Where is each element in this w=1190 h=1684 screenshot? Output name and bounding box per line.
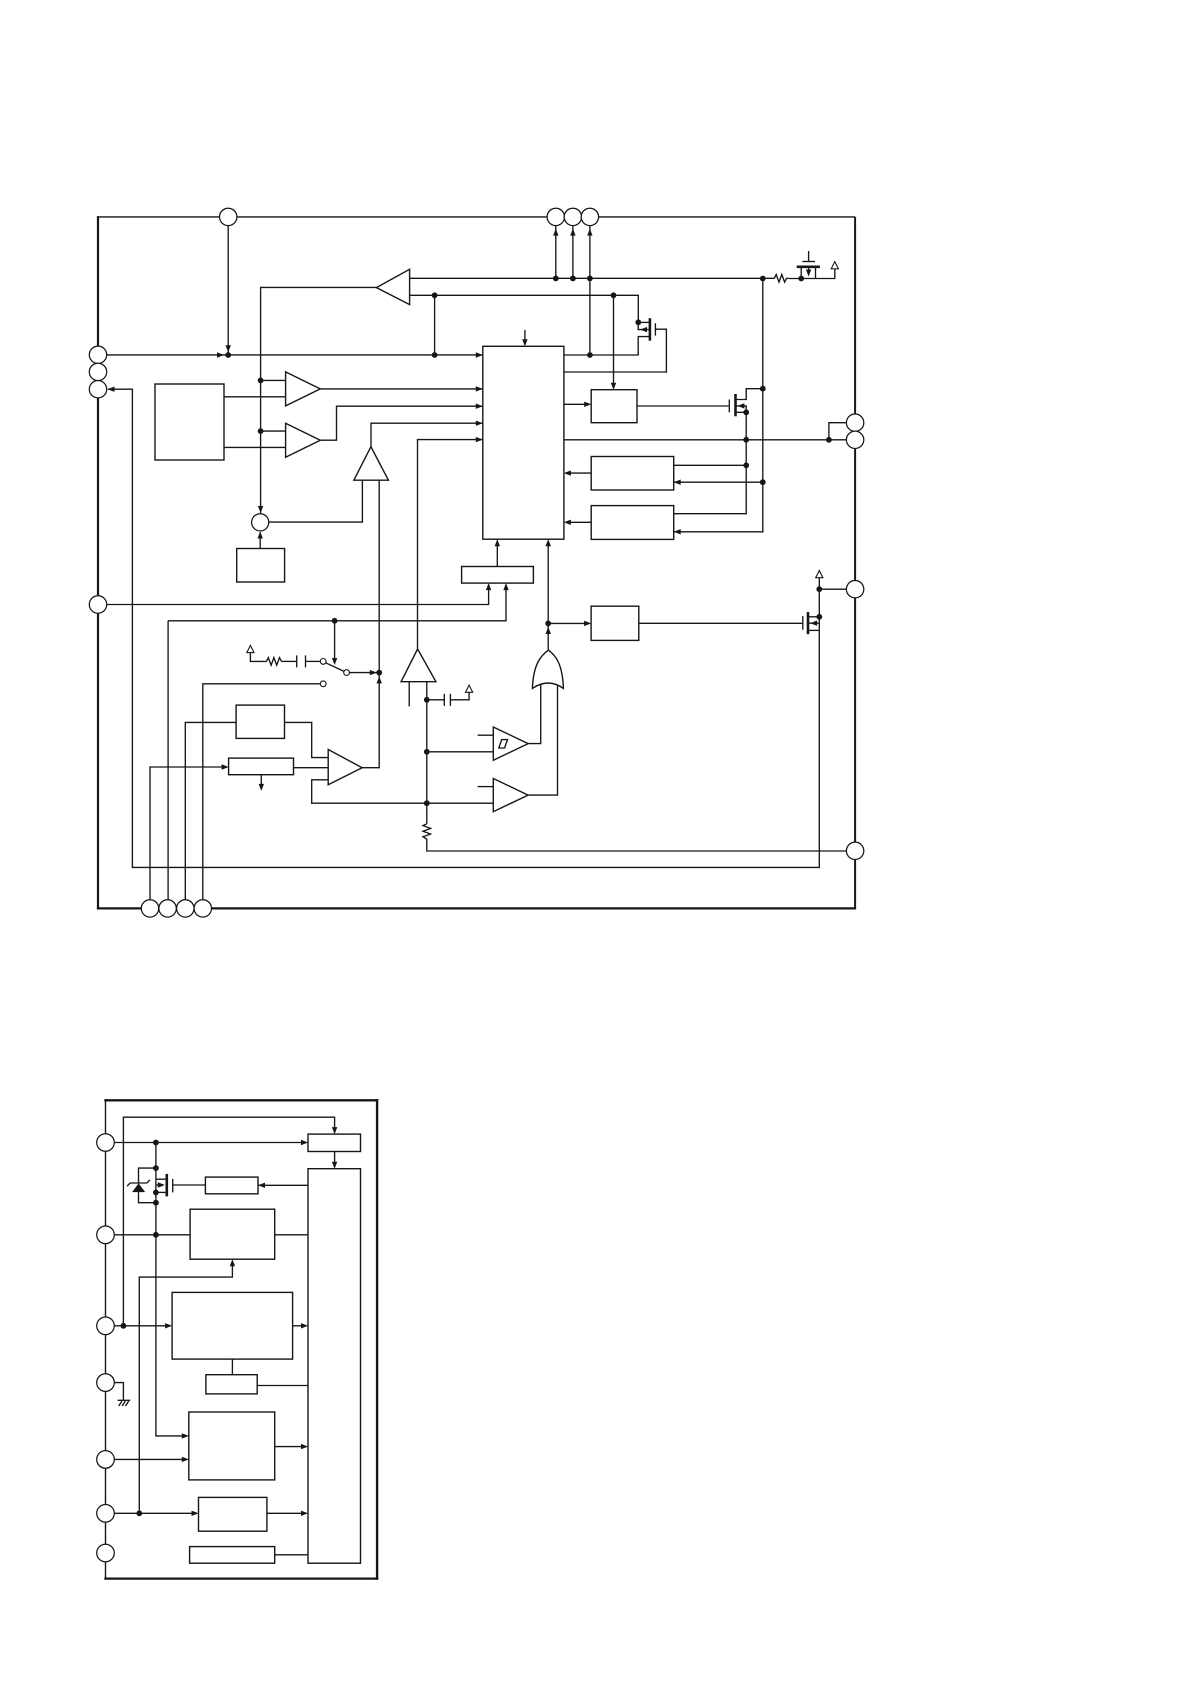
arrow: pin2 stem up	[553, 229, 558, 236]
IC1 outline right border	[854, 217, 856, 909]
wire: pin2 stem	[555, 226, 557, 279]
block B1 oscillator outputs	[155, 384, 224, 460]
pin circle bottom 4	[194, 900, 211, 917]
wire: Q3 source lead	[809, 629, 820, 631]
wire: driver B feedback into main block	[566, 521, 592, 523]
arrow: into B3 top	[611, 383, 616, 390]
wire: pin B1 line to top block	[114, 1142, 306, 1144]
node: x434 on y355	[432, 352, 438, 358]
block BB4 regulator	[190, 1209, 275, 1259]
wire: B3 output to Q2 gate	[637, 405, 729, 407]
wire: B7 output to Q3 gate	[639, 622, 802, 624]
wire: Q2 drain up to bias rail	[736, 389, 763, 400]
wire: driver A output to rail x=746	[674, 464, 747, 466]
wire: arrow branch into driver A right edge	[674, 481, 763, 483]
node: OR output junction	[545, 621, 551, 627]
node: Q1 gate junction	[635, 319, 641, 325]
pin circle right 3	[846, 581, 863, 598]
IC2 outline bottom border	[104, 1577, 378, 1579]
block B3 level shift	[591, 390, 637, 423]
wire: Q3 body arrow lead	[809, 622, 820, 624]
pin circle top 4	[581, 208, 598, 225]
node: Q2 drain on bias rail	[760, 386, 766, 392]
IC2 outline left border	[105, 1099, 107, 1580]
transistor Q4 gate bar	[802, 261, 815, 263]
arrow: switch into junction	[370, 670, 377, 675]
node: supply rail pin11 tap	[816, 586, 822, 592]
wire: buffer2 output to main block	[320, 406, 483, 440]
wire: supply rail x=819.3 down, bottom return to pin7	[108, 389, 819, 867]
amp T4 (up pointing)	[354, 447, 389, 481]
wire: rail x=155.9 down to osc block	[156, 1143, 187, 1436]
node: rail on pin B2 line	[153, 1232, 159, 1238]
transistor Q2 gate bar	[728, 400, 730, 413]
wire: OR gate output up to junction and main block	[547, 541, 549, 650]
node: osc line tap	[424, 800, 430, 806]
arrow: pin B1 into top block	[301, 1140, 308, 1145]
wire: regulator bottom feedback loop	[139, 1261, 232, 1514]
node: rail x746 on y465.3	[743, 462, 749, 468]
arrow: pin B3 into logic block	[165, 1323, 172, 1328]
wire: logic block down to block BB6	[231, 1359, 233, 1375]
resistor R3 (osc to pin12)	[423, 824, 431, 839]
wire: pin8 line y=604.5 into latch	[107, 585, 489, 605]
transistor Q1 gate bar	[654, 323, 656, 335]
zener diode D1 anode triangle	[132, 1183, 145, 1192]
node: pin9 link junction	[826, 437, 832, 443]
wire: Q3 drain lead	[809, 616, 820, 618]
arrow: into main block y439.6	[476, 437, 483, 442]
wire: amp T5 input stub	[408, 682, 410, 707]
arrow: logic block into tall block	[301, 1323, 308, 1328]
pin circle left 4	[89, 596, 106, 613]
arrow: into B3 left	[584, 402, 591, 407]
OR gate U2 (up pointing)	[532, 650, 563, 688]
IC2 outline right border	[376, 1099, 378, 1580]
wire: switch lever	[326, 663, 344, 672]
osc comparator T8	[328, 750, 362, 785]
arrow: into main block y355	[476, 352, 483, 357]
arrow: pin3 stem up	[570, 229, 575, 236]
arrow: BB8 into tall block	[301, 1511, 308, 1516]
wire: top block down into tall block	[334, 1152, 336, 1168]
arrow: into latch bottom left	[486, 583, 491, 590]
wire: main block right y=355 to Q1 source	[564, 337, 649, 355]
arrow: mute control down to switch	[332, 658, 337, 665]
IC1 outline top border	[97, 216, 855, 218]
node: pin1/VREF junction	[225, 352, 231, 358]
IC1 outline left border	[97, 216, 99, 909]
pin circle bottom 3	[177, 900, 194, 917]
wire: pin9 link down to output net	[829, 423, 847, 440]
wire: BB9 to tall block	[275, 1554, 308, 1556]
supply arrow S1 (Q4 drain)	[831, 262, 838, 269]
hysteresis symbol inside T6	[499, 740, 508, 748]
node: Q5 source junction	[153, 1190, 159, 1196]
wire: pin B5 to osc block	[114, 1458, 187, 1460]
node: pin B3 inner loop tap	[121, 1323, 127, 1329]
wire: Q5 gate to resistor block	[173, 1184, 205, 1186]
switch lower throw contact	[320, 681, 326, 687]
switch upper throw contact	[320, 659, 326, 665]
wire: bias vertical x=763 from resistor node down to driver B	[674, 279, 763, 532]
wire: Q4 left terminal	[800, 268, 802, 279]
transistor Q4 channel bar	[797, 265, 820, 268]
arrow: into main block y388.9	[476, 386, 483, 391]
wire: cap branch to supply arrow	[427, 699, 445, 701]
wire: Q2 source lead	[736, 411, 746, 413]
wire: triangle osc net x=426.8 down through resistor to pin12	[426, 682, 428, 824]
wire: pin15 lead to block B9	[185, 722, 236, 899]
summing node circle	[252, 514, 269, 531]
pin circle B3	[97, 1317, 115, 1335]
pin circle B4	[97, 1374, 115, 1392]
wire: pin13 lead to DAC	[150, 767, 227, 900]
transistor Q3 channel bar	[807, 612, 810, 634]
node: mute tap on y620.8	[332, 618, 338, 624]
wire: error amp lower input net y=295	[410, 295, 639, 322]
node: pin3 on y278	[570, 276, 576, 282]
wire: osc block B1 output2 to buffer2	[224, 446, 286, 448]
capacitor C2 (osc)	[443, 694, 445, 706]
node: resistor left	[760, 276, 766, 282]
node: feedback on pin B6 line	[136, 1510, 142, 1516]
wire: comparator1 output to OR gate	[528, 685, 541, 744]
block B10 DAC	[229, 758, 294, 775]
transistor Q2 channel bar	[734, 394, 737, 416]
capacitor C1 (switch RC)	[296, 655, 298, 667]
wire: pin B4 to ground	[114, 1383, 123, 1401]
switch common contact	[344, 670, 350, 676]
wire: x=613.5 down into block B3	[613, 295, 615, 388]
block BB6	[206, 1375, 257, 1394]
block B9 osc control	[236, 705, 284, 738]
wire: comparator1 upper stub	[478, 734, 494, 736]
arrow: stub into main block top	[522, 339, 527, 346]
node: buffer2 tap	[258, 428, 264, 434]
wire: stub arrow into main block top	[524, 330, 526, 345]
arrow: B8 up into node	[258, 532, 263, 539]
block B7 gate driver	[591, 606, 639, 640]
pin circle bottom 2	[159, 900, 176, 917]
wire: feedback net y=278 from error amp to resistor	[410, 277, 775, 279]
block B8 reference	[237, 549, 285, 583]
block BB3 gate resistor	[205, 1177, 258, 1194]
wire: error amp output left and down to buffers	[261, 287, 377, 513]
pin circle top 1	[220, 208, 237, 225]
arrow: pin B6 into BB8	[192, 1511, 199, 1516]
block BB9	[190, 1547, 275, 1564]
arrow: latch out into main block bottom	[495, 539, 500, 546]
arrow: Q1 body arrow	[640, 327, 647, 332]
node: Q2 source	[743, 409, 749, 415]
pin circle left 1	[89, 346, 106, 363]
buffer T3	[286, 423, 321, 457]
wire: regulator output to tall block	[275, 1234, 308, 1236]
wire: bottom pin14 lead up	[167, 621, 169, 900]
wire: DAC output to T8 input	[294, 767, 329, 769]
wire: Q5 source lead	[156, 1191, 166, 1193]
arrow: into summing node top	[258, 506, 263, 513]
arrow: top block into tall block	[332, 1162, 337, 1169]
node: pin4 on y355	[587, 352, 593, 358]
block BB5 logic	[172, 1292, 293, 1359]
wire: node circle to amp T4 input	[269, 480, 363, 522]
resistor R1 (top right)	[774, 275, 788, 283]
wire: latch output up into main block	[496, 541, 498, 567]
wire: Q1 body lead with arrow	[638, 322, 649, 329]
node: pin2 on y278	[553, 276, 559, 282]
arrow: on VREF line right	[217, 352, 224, 357]
transistor Q5 gate bar	[172, 1179, 174, 1193]
node: pin B1 rail tap	[153, 1140, 159, 1146]
transistor Q3 gate bar	[802, 616, 804, 630]
wire: pin11 link	[819, 588, 846, 590]
node: driver A arrow junction	[760, 479, 766, 485]
wire: osc comparator T8 lower input loop	[312, 780, 494, 803]
pin circle right 4	[846, 842, 863, 859]
block BB8	[199, 1497, 267, 1531]
wire: resistor block to tall block	[258, 1184, 308, 1186]
node: osc cap tap	[424, 697, 430, 703]
wire: pin B6 to block BB8	[114, 1512, 197, 1514]
wire: block B8 up into summing node	[259, 532, 261, 548]
arrow: junction into B7	[584, 621, 591, 626]
pin circle B6	[97, 1505, 115, 1523]
wire: switch common to node x=379	[349, 672, 376, 674]
wire: buffer1 output to main block	[320, 388, 483, 390]
node: x613 on y295	[611, 292, 617, 298]
arrow: into pin7	[108, 387, 115, 392]
block BB2 tall	[308, 1169, 361, 1564]
wire: comparator2 output to OR gate	[528, 685, 557, 795]
wire: latch input line y=620.8 from bottom pin lead	[168, 585, 506, 621]
wire: pin B3 line to logic block	[114, 1325, 170, 1327]
wire: amp T5 output up into main block	[418, 440, 483, 649]
buffer T2	[286, 372, 321, 406]
wire: osc block B1 output1 to buffer1	[224, 396, 286, 398]
wire: DAC bottom arrow	[260, 775, 262, 790]
resistor R2 (switch RC)	[267, 658, 282, 666]
wire: osc block to tall block	[275, 1446, 307, 1448]
arrow: driver A into main block	[564, 470, 571, 475]
wire: mute control from latch line down to switch	[334, 621, 336, 663]
arrow: into driver A right edge	[674, 480, 681, 485]
arrow: Q2 body arrow	[737, 403, 744, 408]
wire: B9 output to T8 upper input	[285, 722, 329, 757]
wire: comparator1 lower input	[427, 751, 494, 753]
pin circle bottom 1	[141, 900, 158, 917]
arrow: OR line into main block bottom	[546, 539, 552, 546]
wire: Q5 body arrow lead	[156, 1184, 163, 1186]
ground symbol	[118, 1399, 131, 1401]
transistor Q5 channel bar	[166, 1174, 169, 1197]
wire: link x=434.6 between nets	[434, 295, 436, 355]
block BB1 top	[308, 1134, 361, 1151]
wire: Q1 gate to main block	[564, 329, 667, 372]
node: Q3 drain junction	[816, 614, 822, 620]
op-amp T1 error amp (left pointing)	[376, 269, 409, 304]
arrow: into main block y406.2	[476, 404, 483, 409]
wire: Q4 body arrow terminal	[808, 268, 810, 273]
arrow: into latch bottom right	[503, 583, 508, 590]
arrow: DAC bottom down	[259, 784, 264, 791]
wire: junction to gate driver B7	[548, 622, 590, 624]
arrow: feedback up into regulator bottom	[230, 1259, 235, 1266]
wire: Q2 body arrow lead	[736, 406, 746, 412]
block B5 driver B	[591, 506, 674, 540]
wire: Q4 right terminal	[815, 268, 817, 279]
node: rail x746 on y439.8	[743, 437, 749, 443]
block B6 latch	[462, 567, 534, 584]
arrow: Q5 body arrow	[158, 1182, 165, 1187]
wire: pin3 stem	[572, 226, 574, 279]
wire: Q5 drain lead	[156, 1178, 166, 1180]
node: pin4 on y278	[587, 276, 593, 282]
arrow: OR output up into junction	[546, 627, 552, 634]
arrow: pin4 stem up	[587, 229, 592, 236]
wire: output net y=439.8 from main block to pin10	[564, 439, 847, 441]
wire: net y=278 right of resistor to supply arrow	[788, 269, 835, 278]
wire: rail x=746 from Q2 source down to driver B	[674, 412, 747, 513]
arrow: into resistor block right edge	[258, 1183, 265, 1188]
wire: BB6 to tall block	[257, 1385, 308, 1387]
wire: BB8 to tall block	[267, 1512, 307, 1514]
arrow: comparator up into junction	[377, 676, 382, 683]
supply arrow S3 (osc cap)	[466, 685, 473, 692]
pin circle right 1	[846, 414, 863, 431]
arrow: driver B into main block	[564, 520, 571, 525]
comparator T7	[493, 779, 528, 812]
wire: below resistor to pin12	[427, 839, 847, 851]
arrow: into DAC left	[222, 764, 229, 769]
block B2 main control logic	[483, 346, 564, 539]
wire: logic block to tall block	[293, 1325, 307, 1327]
pin circle left 3	[89, 381, 106, 398]
wire: buffer2 upper input	[261, 430, 286, 432]
pin circle top 2	[547, 208, 564, 225]
wire: zener top lead	[139, 1168, 156, 1183]
wire: VREF net y=355 from left pin to main block	[107, 354, 483, 356]
wire: inner loop from pin B3 up and over to top block	[123, 1117, 334, 1326]
IC1 outline bottom border	[97, 907, 856, 909]
arrow: Q4 body arrow down	[806, 270, 811, 277]
wire: Q1 drain lead	[638, 321, 649, 323]
transistor Q1 channel bar	[649, 318, 652, 341]
arrow: loop down into top block	[332, 1127, 337, 1134]
amp T5 (up pointing)	[401, 649, 436, 682]
pin circle B2	[97, 1226, 115, 1244]
wire: zener bottom lead	[139, 1192, 156, 1203]
node: x434 on y295	[432, 292, 438, 298]
arrow: into main block y423.2	[476, 421, 483, 426]
supply arrow S4 (switch RC)	[247, 645, 254, 652]
arrow: Q3 body arrow	[810, 621, 817, 626]
wire: driver A feedback into main block	[566, 472, 592, 474]
wire: buffer1 upper input	[261, 379, 286, 381]
wire: pin4 stem long	[589, 226, 591, 355]
node: Q4 source	[798, 276, 804, 282]
IC2 outline top border	[104, 1099, 378, 1101]
wire: cap to switch upper throw	[306, 660, 321, 662]
pin circle top 3	[564, 208, 581, 225]
arrow: rail into osc block	[182, 1433, 189, 1438]
arrow: pin1 stem down	[226, 345, 231, 352]
node: comparator1 tap	[424, 749, 430, 755]
pin circle B7	[97, 1544, 115, 1562]
wire: amp T4 output up to main block	[371, 423, 483, 447]
wire: comparator2 upper stub	[478, 786, 494, 788]
wire: cap right side up to supply	[450, 692, 469, 700]
node: buffer1 tap	[258, 378, 264, 384]
pin circle left 2	[89, 363, 106, 380]
wire: pin1 stem down to VREF net	[227, 226, 229, 355]
wire: supply to RC filter	[250, 653, 266, 662]
node: zener top / Q5 drain	[153, 1165, 159, 1171]
wire: RC between resistor and cap	[282, 660, 297, 662]
block B4 driver A	[591, 457, 674, 491]
pin circle right 2	[846, 431, 863, 448]
arrow: osc block into tall block	[301, 1444, 308, 1449]
wire: amp T4 second input from switch node down to osc comparator	[362, 480, 379, 768]
pin circle B5	[97, 1451, 115, 1469]
wire: pin B2 line to regulator	[114, 1234, 190, 1236]
supply arrow S2 (Q3 drain)	[816, 571, 823, 578]
wire: Q4 gate stub	[808, 251, 810, 261]
zener diode D1 cathode bar	[127, 1180, 150, 1186]
comparator T6 with hysteresis	[493, 727, 528, 760]
node: zener anode junction	[153, 1200, 159, 1206]
node: switch/comparator junction	[376, 670, 382, 676]
wire: main block to B3 input	[564, 403, 590, 405]
arrow: pin B5 into osc block	[182, 1457, 189, 1462]
block BB7 oscillator	[189, 1412, 275, 1480]
wire: pin16 lead to switch lower throw	[203, 684, 321, 900]
arrow: into driver B right edge	[674, 529, 681, 534]
pin circle B1	[97, 1134, 115, 1152]
